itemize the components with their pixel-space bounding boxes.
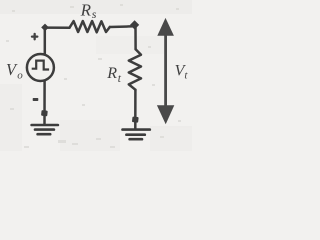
svg-text:R: R [80,0,92,19]
ground (left) [32,124,58,127]
arrow Vt shaft [164,33,167,107]
svg-text:s: s [92,7,97,21]
node B (top right junction dot) [130,20,139,29]
scanned paper background [0,0,192,151]
node C (square dot above left ground) [41,110,48,116]
wire left vertical node A to source top [44,28,47,55]
ground (right) [123,128,150,131]
plus sign [32,34,37,39]
node D (square dot above right ground) [132,116,139,122]
wire Rt bottom to right ground [134,90,137,129]
source V0 circle [27,54,54,81]
wire top horizontal from node A to node B [45,26,70,29]
arrow Vt (double headed) [157,18,174,124]
resistor Rs [70,21,110,32]
minus sign [33,98,39,101]
wire right vertical node B to Rt [134,26,137,49]
wire source bottom to left ground [43,81,46,124]
resistor Rt [129,49,141,90]
svg-text:R: R [106,65,117,82]
pulse waveform symbol [32,61,49,70]
node A (top left junction dot) [41,24,49,32]
svg-text:o: o [17,70,23,82]
